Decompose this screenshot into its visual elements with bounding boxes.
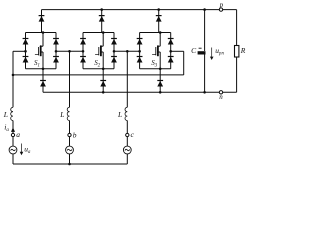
svg-text:L: L xyxy=(117,110,122,119)
svg-text:a: a xyxy=(16,130,20,139)
svg-text:b: b xyxy=(73,130,77,139)
svg-text:L: L xyxy=(59,110,64,119)
svg-text:R: R xyxy=(240,46,246,55)
svg-text:n: n xyxy=(219,93,223,101)
svg-text:p: p xyxy=(219,1,224,9)
svg-text:L: L xyxy=(3,110,8,119)
